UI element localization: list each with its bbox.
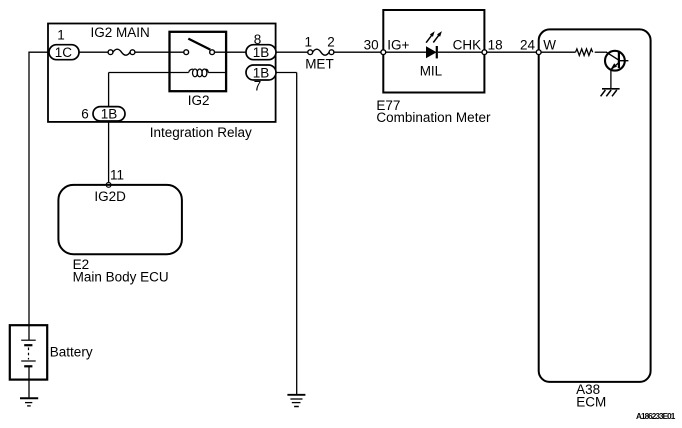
svg-text:Battery: Battery xyxy=(50,344,93,359)
svg-text:1: 1 xyxy=(57,27,65,42)
wire W to resistor xyxy=(541,51,575,53)
connector 1B pin 8 xyxy=(246,45,276,60)
svg-text:24: 24 xyxy=(520,37,536,52)
svg-text:1B: 1B xyxy=(101,106,118,121)
wire LED to CHK xyxy=(438,51,482,53)
svg-text:1B: 1B xyxy=(253,45,270,60)
ground battery xyxy=(20,398,38,406)
svg-text:MET: MET xyxy=(305,57,334,72)
fuse MET xyxy=(308,49,334,55)
connector 1B pin 7 xyxy=(246,65,276,80)
svg-text:A186233E01: A186233E01 xyxy=(636,412,676,421)
node W terminal xyxy=(536,50,541,55)
svg-text:6: 6 xyxy=(81,106,89,121)
svg-text:W: W xyxy=(543,37,556,52)
E2 main body ECU box xyxy=(58,185,181,254)
wire resistor to transistor xyxy=(595,51,607,53)
svg-text:IG2: IG2 xyxy=(188,93,210,108)
svg-text:ECM: ECM xyxy=(576,395,606,410)
svg-text:IG+: IG+ xyxy=(387,37,409,52)
ground center xyxy=(287,395,305,407)
combination meter box E77 xyxy=(383,10,484,93)
wire 1C to fuse xyxy=(79,51,108,53)
svg-text:1: 1 xyxy=(305,35,313,50)
wire emitter to ground xyxy=(610,69,612,88)
node IG+ terminal xyxy=(381,50,386,55)
svg-text:1C: 1C xyxy=(55,45,73,60)
battery box xyxy=(10,325,47,379)
svg-text:7: 7 xyxy=(254,78,262,93)
resistor xyxy=(576,49,593,56)
wire 1C to left corner and down to battery xyxy=(29,52,49,340)
svg-text:Integration Relay: Integration Relay xyxy=(150,125,252,140)
node 11 on E2 xyxy=(106,183,111,188)
svg-text:18: 18 xyxy=(488,37,503,52)
svg-text:8: 8 xyxy=(254,32,262,47)
battery cells xyxy=(21,340,36,366)
wire coil to connector 6 branch xyxy=(109,73,170,108)
svg-text:IG2D: IG2D xyxy=(94,189,126,204)
integration relay outer box xyxy=(48,24,276,122)
svg-text:MIL: MIL xyxy=(420,64,443,79)
relay switch blade xyxy=(188,39,210,50)
wire relay to connector 8 xyxy=(226,51,246,53)
wire connector 8 to MET fuse xyxy=(276,51,308,53)
connector 1C xyxy=(49,45,79,60)
wire CHK to ECM xyxy=(487,51,537,53)
connector 1B pin 6 xyxy=(93,106,125,121)
wire battery to ground xyxy=(28,366,30,397)
wire IG+ to LED xyxy=(386,51,426,53)
svg-text:Main Body ECU: Main Body ECU xyxy=(73,270,169,285)
wire MET to combination meter xyxy=(334,51,381,53)
ground ECM internal xyxy=(601,89,620,97)
relay coil xyxy=(170,69,227,77)
svg-text:CHK: CHK xyxy=(453,37,482,52)
svg-text:2: 2 xyxy=(327,35,335,50)
relay IG2 box xyxy=(170,32,227,91)
relay switch contacts xyxy=(170,50,227,55)
svg-text:30: 30 xyxy=(364,37,379,52)
svg-text:Combination Meter: Combination Meter xyxy=(376,110,491,125)
node CHK terminal xyxy=(482,50,487,55)
svg-text:IG2 MAIN: IG2 MAIN xyxy=(91,25,150,40)
wire fuse to relay box xyxy=(135,51,170,53)
svg-text:11: 11 xyxy=(110,168,124,183)
wire connector 6 down to node 11 xyxy=(108,121,110,183)
transistor Q xyxy=(605,51,628,71)
fuse IG2 MAIN xyxy=(108,49,135,55)
ECM box A38 xyxy=(539,29,651,382)
wire connector 7 to ground drop xyxy=(276,73,297,395)
LED MIL xyxy=(426,31,442,58)
